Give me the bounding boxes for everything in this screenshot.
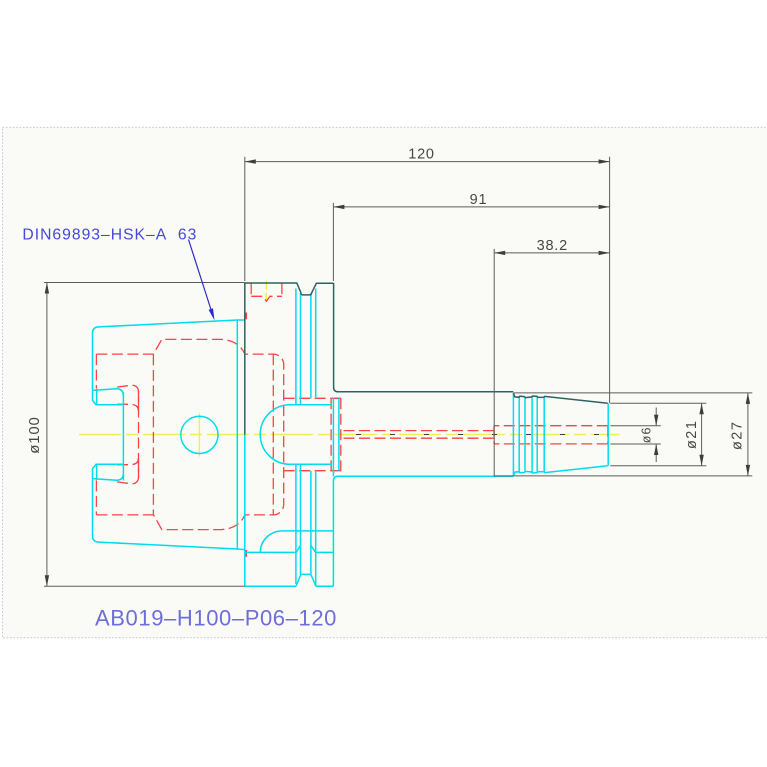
extension line right common [609,157,611,403]
collar bottom edge [245,585,334,587]
yellow centerline of drive slot [265,281,267,304]
hidden collar face rectangle [331,398,341,470]
hidden corner top left [117,385,139,411]
collar section line d63 [282,530,333,532]
arrow ø100 top [45,283,49,294]
svg-text:ø100: ø100 [26,416,43,453]
shank step ledge top [93,389,124,396]
yellow main centerline [79,434,620,436]
arrow ø21 bottom [699,455,703,466]
collar groove verticals upper [296,289,316,405]
extension line 91 left [332,203,334,281]
dimension line ø27 [747,393,749,476]
arrow 120 right [599,159,610,163]
dimension line ø6 [655,408,657,463]
yellow vertical centerline of circle [198,413,200,456]
shank left face lower [93,464,124,536]
collar right edge upper with fillet [334,283,338,392]
arrow ø27 bottom [746,465,750,476]
collar right edge lower with fillet [333,397,337,586]
collar left edge upper [244,283,246,435]
dimension line 120 [245,161,610,163]
leader arrowhead [209,308,215,320]
arrow ø27 top [746,393,750,404]
hidden left face verticals [95,354,97,515]
nose bottom taper edge with scallops [513,466,607,476]
drawing panel [3,127,767,637]
arrow 91 right [599,205,610,209]
arrow ø6 top outside [654,415,658,426]
nose ring verticals [513,393,544,476]
svg-text:AB019–H100–P06–120: AB019–H100–P06–120 [95,606,337,631]
svg-text:ø21: ø21 [684,420,700,450]
dimension line ø100 [46,283,48,587]
hidden tool bore ø6 [494,426,608,444]
collar section line lower [245,551,334,553]
svg-text:DIN69893–HSK–A 63: DIN69893–HSK–A 63 [22,227,197,244]
arrow 38.2 left [494,251,505,255]
shank taper bottom edge [93,536,245,550]
arrow ø6 bottom outside [654,444,658,455]
hidden tick bottom collar face [245,550,247,557]
dimension line 91 [333,206,609,208]
leader line [189,240,211,310]
dark dash overlay on centerline [356,434,612,436]
dimension line 38.2 [494,252,609,254]
shank bore inner vertical [122,393,124,481]
hidden drawbar bore wall [152,354,154,514]
arrow ø100 bottom [45,575,49,586]
arrow 91 left [333,205,344,209]
svg-text:120: 120 [408,147,435,163]
shank taper top edge [93,320,245,333]
shaft bottom line [338,475,514,477]
hidden drive slot [251,283,282,301]
collar bottom groove notch [296,574,316,586]
collar groove verticals lower [296,464,316,586]
collar top edge with groove notch [245,283,334,295]
hidden cavity cap lines [284,398,341,470]
arrow 38.2 right [599,251,610,255]
extension lines ø100 [44,283,245,587]
collar face vertical [338,397,340,471]
shank face inner verticals [96,389,98,480]
shank big end face [236,320,238,549]
nose tip face [607,403,609,465]
collar groove chamfers lower [296,546,316,553]
hidden bore vertical x138 [138,391,140,478]
extension lines ø21 [610,403,706,466]
shank left face upper [93,333,124,405]
hidden inner taper lower line [96,514,153,516]
cavity horizontals [290,405,332,465]
dimension line ø21 [701,403,703,466]
svg-text:ø27: ø27 [729,421,745,451]
svg-text:38.2: 38.2 [537,238,568,254]
cavity bullet arc [260,405,290,465]
extension line 38.2 left [493,249,495,476]
hidden tick top collar face [245,313,247,320]
hidden bore vertical x273 [272,354,274,515]
hidden corner bottom left [117,458,139,484]
shaft top line [338,391,513,393]
extension line 120 left [244,157,246,281]
collar left edge lower [244,435,246,587]
balance hole circle [181,416,218,453]
svg-text:91: 91 [470,192,488,208]
extension lines ø27 [494,393,752,476]
collar section quarter arc [260,531,282,552]
arrow ø21 top [699,403,703,414]
arrow 120 left [245,159,256,163]
svg-text:ø6: ø6 [640,427,654,444]
extension lines ø6 [610,426,661,444]
nose top taper edge with scallops [513,393,607,403]
hidden coolant bore [341,431,494,439]
hidden inner taper upper line [96,339,283,529]
shank step ledge bottom [93,473,124,480]
